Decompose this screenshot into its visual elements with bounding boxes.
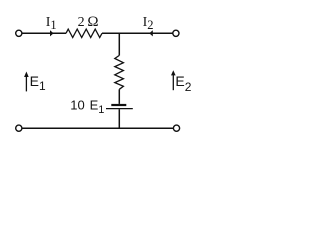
resistor middle vertical zigzag xyxy=(115,55,124,89)
terminal top-left xyxy=(16,30,22,36)
svg-text:Ω: Ω xyxy=(87,14,98,30)
svg-text:I1: I1 xyxy=(46,15,57,32)
arrow I2 direction xyxy=(149,30,153,36)
svg-text:I2: I2 xyxy=(143,15,154,32)
arrow E2 reference xyxy=(171,70,176,90)
wire middle branch top xyxy=(118,33,120,55)
battery plate thick short xyxy=(111,104,126,106)
battery plate thin long xyxy=(106,108,133,110)
wire middle branch bottom xyxy=(118,109,120,129)
resistor 2ohm horizontal zigzag xyxy=(66,29,102,37)
arrow E1 reference xyxy=(24,72,29,92)
wire top-right segment xyxy=(102,32,173,34)
svg-text:2: 2 xyxy=(78,15,85,30)
wire top-left segment xyxy=(22,32,66,34)
wire bottom xyxy=(22,127,173,129)
wire middle branch between resistor and battery xyxy=(118,89,120,104)
svg-text:10: 10 xyxy=(70,97,84,112)
arrow I1 direction xyxy=(50,30,54,36)
terminal top-right xyxy=(173,30,179,36)
terminal bottom-left xyxy=(16,125,22,131)
terminal bottom-right xyxy=(173,125,179,131)
